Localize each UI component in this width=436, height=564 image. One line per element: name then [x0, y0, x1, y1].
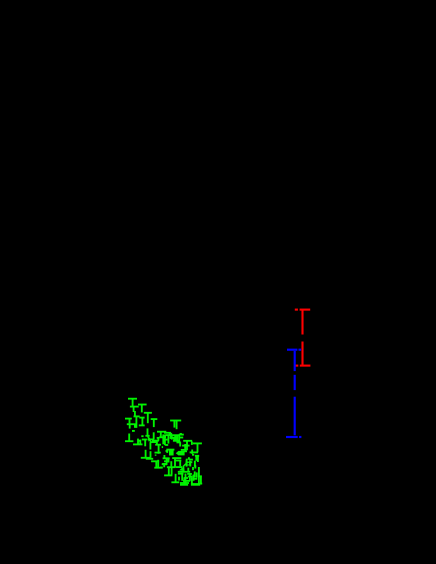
green errorbar 20 — [155, 452, 161, 454]
green errorbar 53 — [192, 475, 194, 484]
green errorbar 60 — [166, 450, 169, 453]
green errorbar 29 — [165, 434, 172, 443]
green errorbar 34 — [183, 441, 192, 451]
green errorbar 31 — [172, 435, 181, 447]
green errorbar 3 — [138, 405, 147, 413]
green errorbar 10 — [125, 434, 133, 442]
green errorbar 11 — [170, 421, 181, 430]
green errorbar 17 — [141, 450, 153, 459]
green errorbar 48 — [178, 462, 190, 472]
green errorbar 57 — [189, 457, 193, 466]
green errorbar 21 — [151, 461, 159, 467]
green errorbar 42 — [172, 458, 182, 467]
green errorbar 12 — [133, 439, 143, 445]
green errorbar 30 — [170, 436, 177, 439]
green errorbar 39 — [194, 456, 199, 467]
green errorbar 8 — [139, 418, 145, 426]
green errorbar 49 — [178, 473, 184, 481]
green errorbar 50 — [171, 474, 179, 483]
green errorbar 43 — [176, 461, 182, 467]
green errorbar 47 — [186, 459, 190, 465]
blue error bar — [286, 350, 301, 437]
green errorbar 12b — [141, 428, 150, 440]
green errorbar 9 — [127, 424, 136, 431]
green errorbar 22 — [154, 460, 162, 468]
green errorbar 6 — [125, 419, 132, 424]
red error bar — [295, 310, 311, 366]
green errorbar 46 — [164, 467, 176, 476]
green errorbar 5 — [134, 416, 140, 428]
green errorbar 54 — [195, 471, 197, 477]
green errorbar 45 — [170, 461, 172, 466]
green errorbar 28 — [157, 437, 164, 440]
green errorbar 4 — [144, 413, 152, 423]
green errorbar 37 — [190, 450, 198, 455]
green errorbar 33 — [179, 435, 184, 442]
green errorbar 36 — [181, 449, 186, 451]
green errorbar 14 — [148, 439, 155, 442]
green errorbar 58 — [187, 460, 193, 470]
green errorbar 7 — [151, 419, 158, 439]
green errorbar 27 — [163, 434, 171, 444]
green errorbar 16 — [150, 442, 156, 449]
green errorbar 1 — [128, 399, 137, 408]
green errorbar 26 — [169, 434, 172, 439]
green errorbar 38 — [193, 443, 202, 452]
green errorbar 32 — [180, 433, 182, 435]
green errorbar 18 — [155, 445, 161, 452]
green errorbar 19 — [156, 441, 158, 444]
green errorbar 44 — [160, 455, 170, 468]
green errorbar 35 — [182, 444, 190, 450]
green errorbar 23 — [162, 464, 167, 467]
green errorbar 40 — [166, 450, 174, 456]
green errorbar 61 — [165, 437, 168, 446]
green errorbar 55 — [195, 466, 202, 484]
green errorbar 51 — [180, 474, 189, 485]
green errorbar 2 — [130, 407, 139, 417]
green errorbar 15 — [152, 440, 159, 442]
green errorbar 59 — [155, 447, 163, 456]
green errorbar 24 — [157, 432, 166, 437]
green errorbar 56 — [191, 482, 202, 485]
green errorbar 25 — [164, 432, 171, 434]
green errorbar 13 — [142, 440, 147, 447]
green errorbar 52 — [183, 474, 197, 481]
green errorbar 41 — [176, 451, 187, 456]
